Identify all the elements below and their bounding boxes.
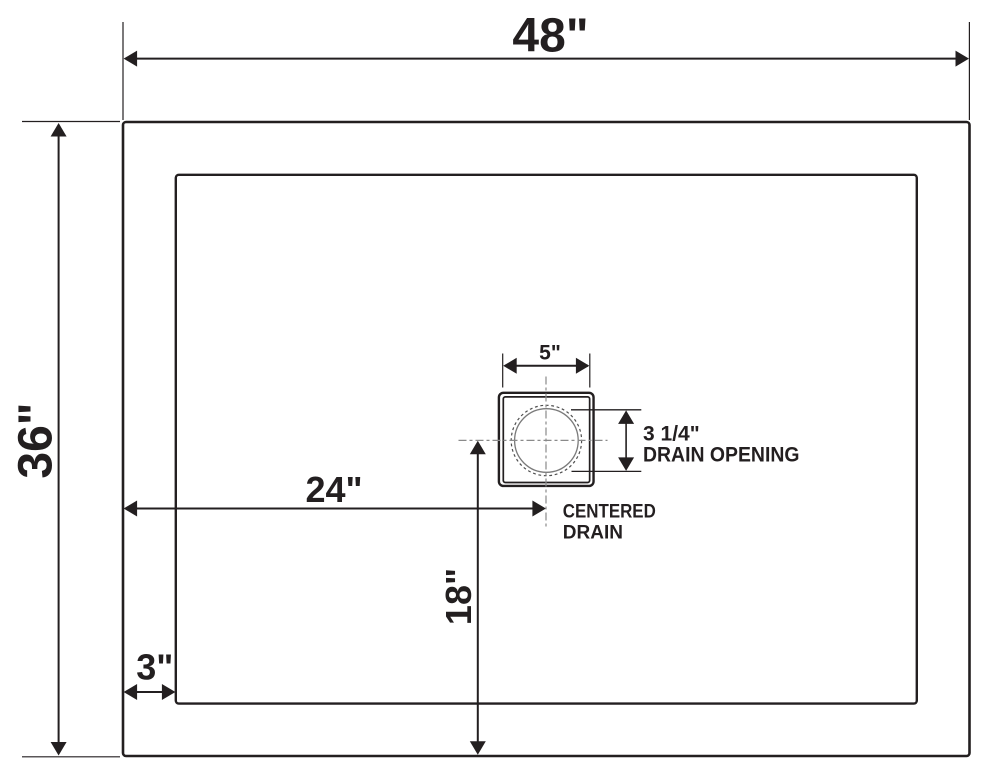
svg-text:3 1/4": 3 1/4" [643,422,700,445]
drain opening dashed circle [511,405,581,475]
svg-text:24": 24" [305,469,362,510]
dimension 5 inch [503,341,589,374]
centerline vertical [545,377,547,528]
dimension 36 inch [10,123,67,756]
drain flange inner square [503,397,589,483]
inner basin rectangle [176,175,917,704]
drain flange outer square [499,393,594,486]
drain grate circle [515,409,579,473]
dimension 3 inch [124,647,176,701]
dimension 48 inch [124,10,969,67]
svg-text:DRAIN OPENING: DRAIN OPENING [643,444,800,467]
dimension 3 1/4 inch drain opening [618,410,799,471]
extension line top-right [968,22,970,120]
extension line top-left [122,22,124,120]
svg-text:48": 48" [512,10,588,63]
leader line drain top [571,409,641,411]
outer pan rectangle [123,122,970,756]
leader line drain bottom [572,470,642,472]
dimension 24 inch [124,469,546,517]
extension line 5 inch right [589,354,591,388]
extension line 5 inch left [502,354,504,388]
svg-text:5": 5" [539,341,561,364]
svg-text:DRAIN: DRAIN [563,523,623,544]
svg-text:CENTERED: CENTERED [563,502,656,523]
extension line left-top [22,121,120,123]
svg-text:18": 18" [438,568,479,625]
centerline horizontal [459,439,608,441]
label centered drain [563,502,656,544]
extension line left-bottom [22,756,120,758]
dimension 18 inch [438,441,486,755]
svg-text:36": 36" [10,402,63,478]
svg-text:3": 3" [136,647,173,688]
